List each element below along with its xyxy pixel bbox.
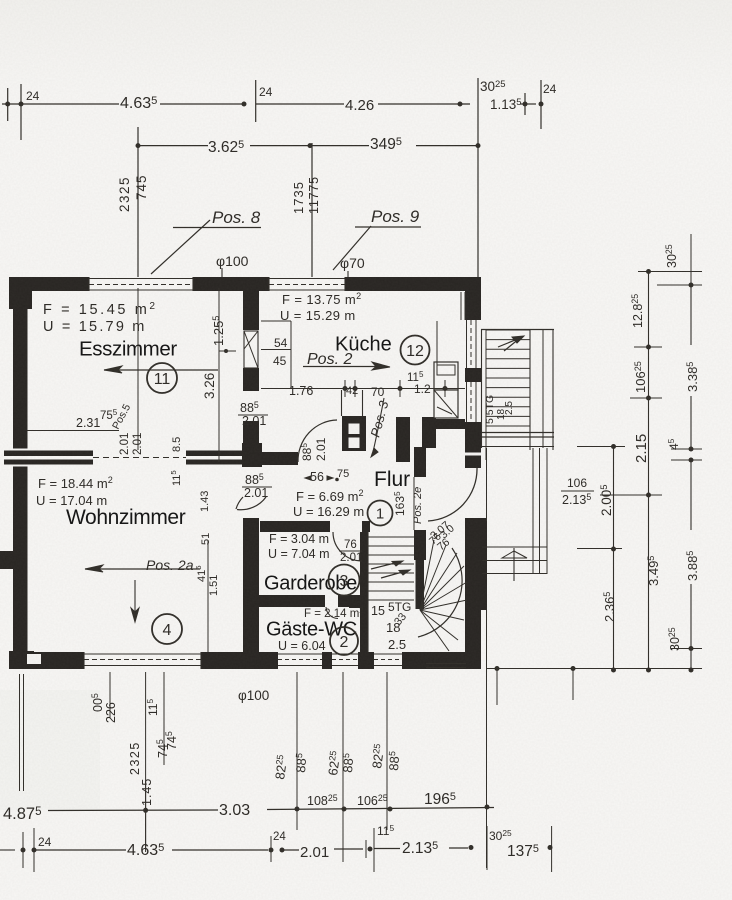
left wall extension double line (20, 674, 24, 791)
door labels 88-5/2.01 (rotated pair in Flur north door) (299, 437, 328, 461)
door labels 88-5/2.01 (lower pair) (242, 472, 272, 500)
door arc Garderobe (333, 532, 362, 561)
staircase straight flight treads (368, 477, 414, 652)
rotated dims 62-25 / 88-5 under WC window 2 (325, 750, 356, 776)
east exterior wall (465, 277, 487, 669)
rotated dims along central wall west face (169, 437, 220, 652)
dimension row 2: 3.62-5 / 3.49-5 (136, 136, 481, 156)
chimney block with two flues (342, 390, 367, 451)
balcony rotated text 5 STG (484, 395, 515, 424)
Kueche dim row 1.76 / 42 / 70 / 1.2 (261, 321, 465, 399)
label Pos. 8 with leader and phi-100 (151, 208, 261, 277)
rotated dims 2325 / 145 (128, 741, 154, 806)
window east wall upper (balcony door) (467, 320, 477, 368)
bottom-left corner pier (9, 651, 34, 669)
bottom dim row B: 24 / 4.63-5 / 24 / 2.01 / 11-5 / 2.13-5 / 30-25 / 137-5 (0, 823, 553, 872)
site line x=486.5 (486, 448, 488, 868)
rotated dims 82-25 / 88-5 under WC window 3 (369, 743, 402, 771)
bottom exterior wall (27, 652, 481, 669)
left wall gap where divider strips pass through (13, 449, 28, 467)
label Pos. 9 with leader and phi-70 (333, 207, 421, 280)
extension line x=478 (from top rows down to plan) (477, 104, 479, 302)
extension line x=138 with rotated 2325 / 745 (117, 127, 149, 277)
Garderobe/WC east wall (349, 532, 368, 655)
right dims bottom connector line (487, 666, 702, 705)
kitchen corner window lines (461, 292, 465, 320)
top-left corner pier (9, 277, 32, 309)
kitchen counter / sink (434, 362, 458, 418)
area text Wohnzimmer F/U (36, 475, 113, 508)
door arc Flur to staircase (428, 468, 477, 521)
door arc central wall lower (88.5) into Wohnzimmer (236, 497, 243, 509)
area text Flur F/U (293, 488, 364, 519)
staircase up-arrows (371, 561, 410, 578)
area text Garderobe F/U (268, 532, 330, 561)
windows bottom wall (WC / stair) (278, 654, 322, 666)
Kueche dim 54 / 45 / Pos. 2 arrow (261, 336, 390, 370)
room circle 1 Flur (368, 501, 393, 526)
staircase center spine (dark) (416, 543, 425, 609)
door arc Flur north (88.5) (298, 420, 337, 462)
window bottom wall (Wohnzimmer) (84, 652, 201, 669)
Esszimmer interior dim 2.31 / 75-5 (27, 402, 133, 431)
Flur dim 56 / 75 (305, 468, 349, 484)
window east wall lower (467, 382, 477, 422)
rotated dims 115 / 745 / 745 (145, 699, 179, 758)
window centerlines extending below plan (110, 672, 387, 862)
top exterior wall (9, 277, 481, 291)
left exterior wall (13, 291, 28, 669)
Esszimmer east dim line 1.25-5 / 3.26 (202, 288, 236, 462)
room circle 2 WC (330, 627, 358, 655)
Garderobe north wall with door gap (260, 521, 370, 532)
right dim chain line 2 (x=648.5): 12.8-25 / 106-25 / 2.15 / 3.49-5 (600, 269, 702, 673)
room circle 4 Wohnzimmer (152, 614, 182, 644)
rotated dims 82-25 / 88-5 under WC window 1 (272, 753, 309, 781)
exterior landing steps (east of staircase) (482, 547, 547, 581)
door labels 88-5/2.01 (upper pair, horizontal) (238, 400, 268, 428)
stair bottom wall inner lines (426, 664, 466, 668)
divider wall Esszimmer/Wohnzimmer (double strip) (28, 451, 245, 465)
room circle 11 Esszimmer (147, 363, 177, 393)
Flur north wall segment + blocks (260, 417, 436, 465)
right dim chain line 1 (x=613.5): 2.00-5 / 2.36-5 and 106/2.13-5 (561, 444, 625, 673)
window in top wall (Esszimmer) (89, 277, 193, 291)
stair-hall west wall (x 414-426) (414, 447, 426, 560)
WC north wall with door gap (259, 595, 360, 607)
balcony stair direction arrow (498, 336, 524, 351)
central interior wall (x 243-259) (243, 291, 259, 667)
door symbol Esszimmer-Kueche (leaf in wall) (244, 331, 258, 368)
extension line x=312 with rotated 1735 / 11775 (291, 143, 321, 277)
Wohnzimmer Pos. 2a arrow (85, 557, 200, 573)
rotated 2.01 2.01 at x=138 (119, 288, 144, 455)
Pos. 3 rotated with leader arrow (367, 398, 391, 457)
right dim chain line 3 (x=691): 30-25 / 3.38-5 / 4-5 / 3.88-5 / 30-25 (657, 234, 702, 673)
room circle 3 Garderobe (329, 565, 360, 596)
window in top wall (Kueche) (269, 277, 345, 291)
stair text 15 STG 18/25 (371, 600, 411, 652)
stair door label rotated 3.07 / 76 (428, 519, 452, 553)
rotated dims bottom-left 00-5 / 226 (90, 693, 118, 723)
staircase winder fan (418, 540, 467, 651)
left wall exterior pier (chimney) (0, 551, 13, 569)
Wohnzimmer down arrow (131, 580, 139, 622)
Garderobe door label 76 / 2.01 (339, 539, 362, 564)
balcony exterior stair (east of Kueche) (481, 329, 554, 574)
door arc WC (326, 607, 338, 619)
area text Kueche F/U (280, 291, 362, 323)
dimension row 1: 24 / 4.63-5 / 24 / 4.26 / 30-25 / 1.13-5 / 24 (2, 78, 557, 140)
area text WC F/U (278, 606, 364, 653)
area text Esszimmer F/U (43, 301, 158, 335)
Esszimmer direction arrow (Pos 11) (104, 366, 218, 373)
stair top-right door label rotated 76/3.0 (427, 522, 457, 547)
central wall junction block (242, 443, 262, 467)
bottom dim row A: 4.87-5 / 3.03 / 108-25 / 106-25 / 196-5 (3, 782, 494, 848)
Kueche south wall (426, 419, 465, 429)
room circle 12 Kueche (401, 336, 430, 365)
